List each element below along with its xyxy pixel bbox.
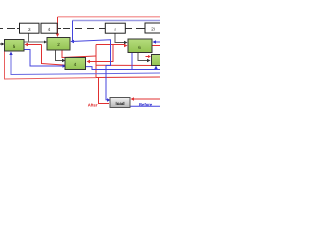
wire: red vertical down and long line under G3 [42, 45, 67, 66]
wire: red arrow into E left [146, 56, 150, 58]
wire: red branch right of junction [97, 64, 161, 66]
wire: red arrow into load right [133, 98, 160, 100]
svg-text:After: After [88, 102, 98, 107]
wire: blue arrow into G2 right [71, 40, 75, 43]
block A (white) "3" [20, 23, 40, 33]
block B (white) "4" [41, 23, 57, 33]
wire: red left bus from G5 bottom [5, 51, 97, 79]
wire: blue load right to edge [131, 105, 161, 107]
wire: red to G6 left [96, 44, 125, 46]
wire: gray drop from box A into node [25, 33, 47, 42]
wire: red branch down into G3 right [89, 45, 113, 62]
wire: blue from G6 bottom to bus [131, 53, 133, 70]
wire: blue up arrow into E bottom [155, 68, 157, 70]
svg-text:2i: 2i [151, 27, 155, 32]
wire: red into G5 right [27, 44, 42, 46]
wire: dashed reference line [0, 28, 145, 30]
block G5 (green) [5, 40, 25, 52]
wire: blue from G5 area to G3 left [24, 50, 64, 67]
wire: red stub G6 right [152, 45, 160, 47]
wire: red vertical x96 with corner to right bus [96, 45, 160, 78]
wire: gray C bottom to G6 left [115, 33, 126, 42]
svg-text:Before: Before [139, 102, 153, 107]
wire: blue up arrow into G5 bottom and left bus [11, 54, 160, 75]
svg-text:load: load [115, 101, 124, 106]
wire: red feedback top [58, 16, 161, 18]
wire: gray G2 bottom to G3 left [56, 50, 64, 61]
wire: red from G2 bottom to vertical x96 [62, 50, 96, 58]
wire: black arrow into G2 left [44, 41, 47, 44]
wire: black G5 input from left edge [0, 43, 3, 45]
wire: blue from junction down to bus 69.5 [86, 67, 161, 70]
block E (green, clipped right) [152, 55, 164, 66]
wire: red drop to load left [99, 77, 110, 104]
wire: blue mid horizontal to load [71, 40, 111, 100]
block D (white) "2i" [145, 23, 162, 33]
block C (white) "r" [105, 23, 125, 33]
block load (gray) [110, 98, 130, 108]
block G3 (green) [65, 58, 86, 70]
wire: blue arrow into G6 right [155, 41, 160, 43]
wire: blue feedback top [73, 20, 161, 22]
block G6 (green) [128, 39, 152, 53]
block G2 (green) [47, 38, 70, 51]
wire: gray G6 bottom to E left [138, 53, 148, 61]
wire: red arrow into G2 top [56, 34, 59, 38]
